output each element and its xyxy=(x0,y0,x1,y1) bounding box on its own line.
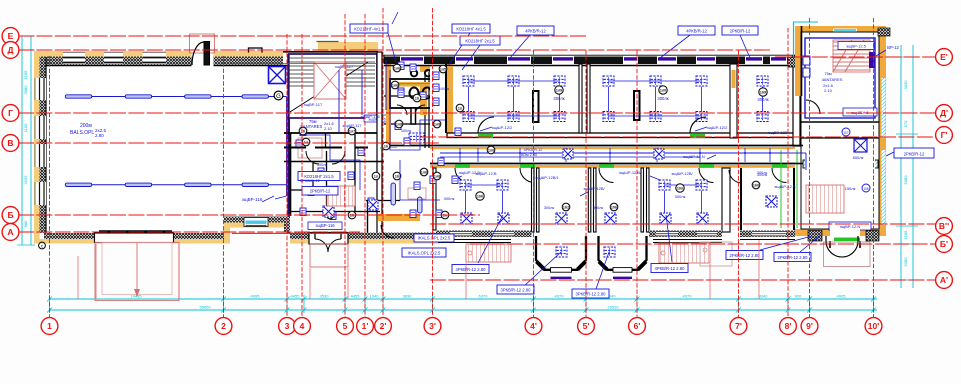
broom A bottom win2 xyxy=(492,231,514,237)
corridor xbox 2 xyxy=(654,149,664,159)
svg-text:1л7: 1л7 xyxy=(349,129,355,133)
pink stairs 2 xyxy=(659,243,710,263)
svg-text:эщВР-117: эщВР-117 xyxy=(304,102,323,107)
hall top window 2 xyxy=(104,52,123,64)
san orange top stub xyxy=(420,66,430,72)
svg-text:КО218НГ-4х1.5: КО218НГ-4х1.5 xyxy=(354,26,384,31)
svg-text:эщВР-12.5: эщВР-12.5 xyxy=(846,44,867,49)
red interior line hall top xyxy=(232,63,378,65)
class top window 7 xyxy=(696,57,716,65)
corridor interior xyxy=(384,148,795,165)
svg-text:1л: 1л xyxy=(374,174,379,178)
svg-text:2.10: 2.10 xyxy=(324,126,333,131)
svg-text:1л: 1л xyxy=(458,106,463,110)
svg-text:4455: 4455 xyxy=(351,294,361,299)
hall interior left line xyxy=(45,57,47,233)
class top window 1 xyxy=(400,57,424,65)
broom D terrace lines xyxy=(653,239,722,241)
hall entrance door swing xyxy=(192,42,204,65)
svg-text:4': 4' xyxy=(530,321,537,331)
rstair outer orange top xyxy=(795,26,886,37)
room1 pilaster xyxy=(533,91,539,122)
broom left wall xyxy=(433,168,436,230)
rstair top cyan corner xyxy=(793,21,818,23)
hall wall bottom xyxy=(44,233,224,239)
entrance canopy xyxy=(95,243,179,301)
svg-text:1л5: 1л5 xyxy=(440,67,446,71)
svg-text:4ANTARES: 4ANTARES xyxy=(822,77,843,82)
mid door arc low xyxy=(381,225,394,238)
hall luminaire row 2 xyxy=(65,183,287,186)
svg-text:4455: 4455 xyxy=(291,294,301,299)
room2 circ xyxy=(659,86,667,94)
broom E lines xyxy=(740,239,795,241)
bottom right hatch col xyxy=(808,231,822,242)
axis bubble 3 xyxy=(279,318,296,335)
svg-text:1б0: 1б0 xyxy=(753,183,759,187)
hall left window 2 xyxy=(35,116,47,139)
svg-text:4905: 4905 xyxy=(837,294,847,299)
svg-text:300лк: 300лк xyxy=(553,96,564,101)
green corridor lines xyxy=(780,150,782,228)
mid bottom wall xyxy=(290,233,363,240)
svg-text:4295: 4295 xyxy=(23,175,28,185)
annex bottom orange xyxy=(224,223,290,228)
svg-text:2РКВ/R-12: 2РКВ/R-12 xyxy=(904,151,925,156)
axis bubble 4 xyxy=(294,318,311,335)
axis bubble В'' xyxy=(936,218,953,235)
svg-text:1940: 1940 xyxy=(370,294,380,299)
rstair hatch col right xyxy=(866,231,879,242)
svg-text:2': 2' xyxy=(380,321,387,331)
roomA lum xyxy=(460,180,471,190)
corridor line ext xyxy=(790,152,806,154)
roomC xbox xyxy=(605,213,616,224)
tlabel 6 xyxy=(722,26,758,35)
axis bubble 4' xyxy=(525,318,542,335)
svg-text:Д: Д xyxy=(7,45,13,55)
svg-text:107: 107 xyxy=(843,131,849,135)
leader B xyxy=(523,252,561,287)
corridor top wall xyxy=(384,145,795,147)
svg-text:Г: Г xyxy=(8,108,13,118)
hall entrance canopy xyxy=(190,34,215,53)
san low wall a xyxy=(290,211,380,213)
blabel 3 xyxy=(572,289,609,298)
class top window 2 xyxy=(455,57,474,65)
san orange small xyxy=(447,64,453,71)
axis bubble Д xyxy=(2,42,19,59)
bottom rooms interior xyxy=(430,168,795,228)
axis bubble 10' xyxy=(865,318,882,335)
svg-text:КО218НГ 4х1.5: КО218НГ 4х1.5 xyxy=(456,26,486,31)
svg-text:3530: 3530 xyxy=(320,294,330,299)
axis bubble Б xyxy=(2,207,19,224)
mid bottom wall2 xyxy=(363,233,439,240)
svg-text:2РКВ/R-12: 2РКВ/R-12 xyxy=(310,188,331,193)
top rooms bottom wall xyxy=(447,133,795,138)
san wall vert 1 xyxy=(377,52,382,240)
axis bubble Г' xyxy=(936,127,953,144)
bay window C xyxy=(599,236,647,270)
hall luminaire row 1 xyxy=(65,95,287,98)
svg-text:3': 3' xyxy=(429,321,436,331)
annex step wall xyxy=(224,217,230,240)
svg-text:1: 1 xyxy=(47,321,52,331)
rstair mid wall xyxy=(801,121,879,123)
svg-text:4370: 4370 xyxy=(683,294,693,299)
hall entrance door leaf xyxy=(204,42,210,66)
san door arcs xyxy=(306,151,319,164)
divider wall 1b xyxy=(587,64,590,133)
svg-text:2РКВ/R-12 2.80: 2РКВ/R-12 2.80 xyxy=(730,253,761,258)
svg-text:300лк: 300лк xyxy=(757,97,768,102)
svg-text:А': А' xyxy=(940,275,948,285)
hall X-box xyxy=(269,67,286,84)
svg-text:300лк: 300лк xyxy=(444,196,455,201)
axis bubble 8' xyxy=(780,318,797,335)
svg-text:1л: 1л xyxy=(304,140,309,144)
mid label ВР116 xyxy=(364,115,390,122)
svg-text:100лк: 100лк xyxy=(401,129,412,133)
room1 left orange wall xyxy=(445,64,447,133)
svg-text:4370: 4370 xyxy=(555,294,565,299)
broom A bottom win1 xyxy=(450,231,472,237)
svg-text:1л6: 1л6 xyxy=(392,83,398,87)
svg-text:Е: Е xyxy=(8,31,14,41)
blabel 5 xyxy=(726,251,763,260)
svg-text:1': 1' xyxy=(362,321,369,331)
mid block top orange xyxy=(318,42,378,51)
tlabel 5 xyxy=(678,26,715,35)
roomE circ xyxy=(752,181,760,189)
stairwell treads xyxy=(287,58,375,112)
divider wall 2 xyxy=(730,64,737,138)
hall outer orange band left xyxy=(34,51,40,244)
svg-text:1б2: 1б2 xyxy=(563,205,569,209)
svg-text:4: 4 xyxy=(300,321,305,331)
svg-text:1л9: 1л9 xyxy=(556,88,562,92)
hall C mark xyxy=(39,242,46,249)
svg-text:4РКВ/R-12: 4РКВ/R-12 xyxy=(686,28,707,33)
roomE canopy xyxy=(700,242,732,266)
stair riser blue xyxy=(338,70,340,133)
dimension lines right xyxy=(896,45,918,288)
broom E bottom wall xyxy=(740,231,795,238)
roomD lum xyxy=(659,180,670,190)
rstair door arc xyxy=(806,100,820,114)
san vert capsule 1 xyxy=(391,183,396,205)
svg-text:1л0: 1л0 xyxy=(488,148,494,152)
san xbox low2 xyxy=(368,200,378,210)
axis bubble 1' xyxy=(357,318,374,335)
svg-text:800лк: 800лк xyxy=(853,155,864,160)
tlabel 4 xyxy=(517,26,554,35)
san door pair xyxy=(397,105,407,115)
rstair top room xyxy=(805,38,875,118)
svg-text:2.10: 2.10 xyxy=(824,88,833,93)
svg-text:10б: 10б xyxy=(611,205,618,209)
hall G symbol xyxy=(274,91,283,100)
svg-text:В'': В'' xyxy=(939,221,949,231)
rstair dark box xyxy=(869,52,875,68)
svg-text:эщВР-116: эщВР-116 xyxy=(242,197,263,202)
mid entrance canopy xyxy=(310,244,348,267)
svg-text:эщВР-12В: эщВР-12В xyxy=(768,130,787,135)
svg-text:300лк: 300лк xyxy=(757,173,768,177)
axis bubble Б' xyxy=(936,236,953,253)
blabel 6 xyxy=(774,253,811,262)
mid block left wall xyxy=(287,54,290,233)
svg-text:1б9: 1б9 xyxy=(760,90,766,94)
class right wall xyxy=(793,56,800,146)
divider wall 1a xyxy=(579,64,582,133)
sanitary fixtures xyxy=(296,62,461,220)
hall interior xyxy=(46,67,288,234)
svg-text:эщШР-12В/1: эщШР-12В/1 xyxy=(535,175,559,180)
hall left window 4 xyxy=(35,182,47,205)
svg-text:эщШР-12.N: эщШР-12.N xyxy=(683,154,705,159)
broom right wall xyxy=(722,168,730,232)
svg-text:эщВР-12.N: эщВР-12.N xyxy=(840,224,861,229)
axis bubble 3' xyxy=(424,318,441,335)
stairwell box xyxy=(289,54,377,118)
roomB circ xyxy=(562,203,570,211)
class top window 5 xyxy=(623,57,638,65)
rstair circ107 xyxy=(842,128,850,136)
broom E bottom win xyxy=(752,231,786,237)
broom A terrace lines xyxy=(438,239,511,241)
svg-text:1100: 1100 xyxy=(23,123,28,132)
rstair door opening xyxy=(830,230,860,242)
broom divider 2 xyxy=(588,168,591,232)
corridor wiring xyxy=(440,148,790,162)
mid wall below stairs xyxy=(284,132,380,134)
axis bubble 2' xyxy=(375,318,392,335)
svg-text:эщШР-12В/: эщШР-12В/ xyxy=(671,171,693,176)
mid block top wall xyxy=(283,51,378,53)
svg-text:10л: 10л xyxy=(677,186,684,190)
axis bubble Г xyxy=(2,105,19,122)
svg-text:ЖALS.OPL 2х2.5: ЖALS.OPL 2х2.5 xyxy=(418,235,451,240)
annex bottom wall xyxy=(229,217,290,223)
svg-text:59600: 59600 xyxy=(199,305,211,310)
hall bottom entrance opening xyxy=(102,233,173,244)
leader A xyxy=(478,215,503,263)
svg-text:1185: 1185 xyxy=(903,230,908,239)
room2 door xyxy=(690,117,706,133)
rstair outer orange right xyxy=(879,26,886,236)
corridor bottom wall xyxy=(430,163,795,165)
roomC circ xyxy=(610,203,618,211)
san vest wall b xyxy=(354,133,356,211)
leader D xyxy=(666,215,672,262)
blabel mid2 xyxy=(402,248,446,257)
svg-text:эщВР-116: эщВР-116 xyxy=(315,223,335,228)
stairwell red square xyxy=(314,62,346,99)
broom D bottom win2 xyxy=(697,231,717,237)
svg-text:1л6: 1л6 xyxy=(394,66,400,70)
svg-text:7': 7' xyxy=(735,321,742,331)
axis bubble Е xyxy=(2,28,19,45)
gray line above stair orange xyxy=(317,41,339,43)
svg-text:4РКВ/R-12 2.80: 4РКВ/R-12 2.80 xyxy=(456,267,487,272)
svg-text:эщШР-12.В/: эщШР-12.В/ xyxy=(619,170,642,175)
vest pink stairs xyxy=(327,186,355,206)
svg-text:300лк: 300лк xyxy=(657,96,668,101)
rstair pink treads xyxy=(833,40,870,72)
hall outer orange band top xyxy=(34,51,283,57)
san pink room outline xyxy=(408,188,426,199)
san orange T horiz xyxy=(394,82,455,87)
svg-text:Д': Д' xyxy=(940,108,948,118)
svg-text:эщШР-12.В/: эщШР-12.В/ xyxy=(459,170,482,175)
svg-text:Б': Б' xyxy=(940,239,948,249)
room1 door xyxy=(478,117,494,133)
dimension line bottom 2 xyxy=(49,309,877,311)
svg-text:920: 920 xyxy=(795,294,802,299)
rstair xbox xyxy=(854,139,867,152)
rstair pink stairs low xyxy=(806,185,844,213)
right 2RKV label xyxy=(894,148,934,158)
hall top window 1 xyxy=(63,52,85,64)
bay window B xyxy=(536,236,586,270)
axis bubble 6' xyxy=(629,318,646,335)
wc cubicle xyxy=(390,79,441,108)
svg-text:2: 2 xyxy=(221,321,226,331)
classrooms interior xyxy=(430,65,795,145)
hall wall top xyxy=(40,57,284,65)
hall riser line xyxy=(286,97,288,197)
class top window 6 xyxy=(657,57,677,65)
roomD circ xyxy=(676,184,684,192)
svg-text:эщШР-12/2: эщШР-12/2 xyxy=(492,125,514,130)
sanitary piping xyxy=(300,60,445,200)
svg-text:570: 570 xyxy=(903,120,908,127)
leader C xyxy=(596,252,609,289)
svg-text:5: 5 xyxy=(343,321,348,331)
room1 circ xyxy=(555,86,563,94)
svg-text:10б: 10б xyxy=(477,194,484,198)
class block left wall xyxy=(383,55,385,64)
axis bubble 7' xyxy=(730,318,747,335)
broom divider 1 xyxy=(532,168,535,232)
red extension lines bottom xyxy=(95,244,97,299)
roomA circ xyxy=(476,192,484,200)
svg-text:680: 680 xyxy=(23,220,28,227)
mid bottom orange xyxy=(290,239,439,244)
svg-text:Б: Б xyxy=(7,210,13,220)
room3 lum xyxy=(757,76,768,86)
san orange T vert xyxy=(420,86,427,115)
svg-text:Е': Е' xyxy=(940,52,948,62)
axis bubble А' xyxy=(936,272,953,289)
tlabel 2 xyxy=(452,24,490,33)
room2 luminaires xyxy=(603,76,707,122)
rstair door green sill xyxy=(834,238,860,242)
svg-text:29520: 29520 xyxy=(607,305,619,310)
broom E walls xyxy=(740,168,742,230)
svg-text:эщШР-116: эщШР-116 xyxy=(360,114,380,119)
svg-text:1л8: 1л8 xyxy=(434,174,440,178)
dimension line bottom 1 xyxy=(49,298,877,300)
svg-text:100лк: 100лк xyxy=(439,87,450,91)
tlabel 3 xyxy=(460,36,500,45)
broom D bottom win1 xyxy=(656,231,678,237)
broom D bottom wall xyxy=(649,231,722,238)
class top window 9 xyxy=(770,57,787,65)
dimension texts bottom xyxy=(130,294,846,310)
svg-text:8': 8' xyxy=(785,321,792,331)
class top window 8 xyxy=(745,57,763,65)
hall left window 1 xyxy=(35,78,47,100)
san wall horiz 1 xyxy=(384,95,430,97)
corner hatch top right xyxy=(878,28,890,36)
blabel mid3 xyxy=(451,264,453,266)
san xbox low xyxy=(323,206,334,217)
svg-text:2080: 2080 xyxy=(903,257,908,267)
svg-text:4РКВ/R-12 2.80: 4РКВ/R-12 2.80 xyxy=(655,266,686,271)
blabel mid1 xyxy=(414,234,454,242)
svg-text:9': 9' xyxy=(806,321,813,331)
rstair label top xyxy=(838,42,874,50)
svg-text:2РКВ/R-12 2.80: 2РКВ/R-12 2.80 xyxy=(778,255,809,260)
svg-text:3040: 3040 xyxy=(759,294,769,299)
rstair label low xyxy=(829,222,871,230)
svg-text:эщШР-12.В: эщШР-12.В xyxy=(774,184,796,189)
corridor door 3 xyxy=(599,164,614,168)
svg-text:150лк: 150лк xyxy=(845,186,856,191)
dimension lines left xyxy=(17,36,35,245)
corridor door 1 xyxy=(455,164,470,168)
mid right step wall xyxy=(284,217,290,233)
svg-text:5РКВ/R-12: 5РКВ/R-12 xyxy=(524,148,543,152)
broom A bottom wall xyxy=(436,231,532,238)
rstair bottom canopy xyxy=(824,242,871,267)
svg-text:1л9: 1л9 xyxy=(434,122,440,126)
svg-text:3РКВ/R-12 2.80: 3РКВ/R-12 2.80 xyxy=(576,291,607,296)
room1 luminaires xyxy=(463,76,565,122)
wc urinals xyxy=(411,70,417,76)
corner column hatch xyxy=(788,57,800,67)
class top line xyxy=(384,54,800,56)
hall entrance step edge xyxy=(99,230,172,233)
corridor circ1 xyxy=(487,146,495,154)
rstair mid label xyxy=(843,108,877,116)
san low wall c xyxy=(366,200,400,202)
annex orange step xyxy=(224,228,230,244)
corridor xbox 1 xyxy=(563,149,573,159)
san wall vert 2 xyxy=(425,66,429,164)
san wall horiz 2 xyxy=(384,123,430,125)
san vest wall d xyxy=(290,189,313,191)
axis bubble В xyxy=(2,135,19,152)
san pink room outline2 xyxy=(298,138,322,158)
san label KO xyxy=(298,172,340,181)
san vert capsule 2 xyxy=(418,197,423,213)
san orange vert xyxy=(386,60,391,152)
rstair riser boxes xyxy=(803,56,810,65)
rstair inner box xyxy=(801,32,879,229)
svg-text:3080: 3080 xyxy=(23,85,28,95)
hall outer orange band bottom xyxy=(34,239,229,244)
broom divider 3 xyxy=(641,168,644,232)
rstair lower room xyxy=(805,143,875,223)
svg-text:ВР-12: ВР-12 xyxy=(887,45,899,50)
svg-text:5080: 5080 xyxy=(903,175,908,185)
leader E1 xyxy=(760,236,812,250)
svg-text:эщШР-12/2: эщШР-12/2 xyxy=(707,125,729,130)
